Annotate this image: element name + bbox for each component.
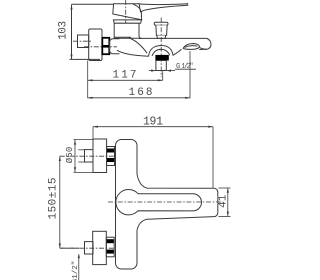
body bottom right of tongue bbox=[200, 48, 207, 50]
stub center line bbox=[73, 40, 91, 42]
bottom supply center line bbox=[60, 247, 118, 249]
body bottom between bell and tongue bbox=[173, 49, 182, 55]
body neck inner curve bbox=[128, 37, 147, 53]
spout bell outer bbox=[149, 45, 173, 56]
handle base inner curve bbox=[133, 4, 140, 9]
body connector bbox=[110, 39, 120, 54]
bottom supply stub bbox=[85, 242, 94, 254]
svg-text:168: 168 bbox=[129, 87, 153, 99]
svg-text:150±15: 150±15 bbox=[47, 178, 59, 220]
wall flange bbox=[89, 29, 102, 61]
body underside curve bbox=[117, 50, 149, 56]
handle lever bbox=[139, 4, 187, 13]
handle pivot center line bbox=[125, 0, 127, 25]
dimension 103 vertical bbox=[70, 4, 114, 59]
top supply stub bbox=[85, 150, 94, 162]
lever underside shadow bbox=[140, 9, 141, 12]
diverter cup bbox=[156, 25, 167, 35]
svg-text:41: 41 bbox=[218, 194, 230, 208]
top supply flange bbox=[93, 139, 107, 173]
cartridge collar bbox=[113, 20, 141, 23]
shower hose connector bbox=[156, 61, 166, 71]
svg-text:103: 103 bbox=[58, 21, 70, 40]
hex nut bbox=[102, 38, 109, 54]
diverter knob flange bbox=[154, 22, 168, 25]
spout bell inner arc bbox=[152, 49, 170, 56]
dimension 168 bbox=[88, 51, 190, 99]
plan center line bbox=[108, 201, 224, 203]
valve body block bbox=[114, 23, 141, 38]
top supply center line bbox=[60, 155, 118, 157]
dimension 41 bbox=[219, 188, 231, 216]
handle base bbox=[113, 4, 142, 20]
valve block joint line bbox=[114, 36, 131, 38]
spout outer outline bbox=[137, 174, 218, 230]
diverter foot bbox=[157, 35, 166, 38]
body tube top and right end bbox=[139, 38, 211, 49]
dimension 150+-15 bbox=[59, 156, 79, 248]
svg-text:191: 191 bbox=[143, 116, 163, 129]
spout tongue (flip lip) bbox=[183, 44, 199, 50]
faucet body bar bbox=[116, 140, 138, 270]
bottom supply flange bbox=[93, 231, 107, 264]
aerator black band bbox=[155, 55, 168, 61]
supply stub (eccentric union) bbox=[78, 35, 89, 48]
dimension 191 bbox=[93, 126, 213, 188]
tongue fold line bbox=[185, 46, 198, 48]
bottom supply nut bbox=[106, 237, 114, 257]
keyhole dome circle and ridge bbox=[116, 190, 202, 215]
G1/2 leader bottom view bbox=[78, 254, 80, 280]
G1/2 leader arrows bbox=[149, 69, 196, 72]
diverter center line bbox=[160, 18, 162, 78]
svg-text:117: 117 bbox=[113, 70, 137, 82]
svg-text:G 1/2": G 1/2" bbox=[176, 63, 194, 71]
dimension 117 bbox=[88, 71, 163, 81]
main axis center line bbox=[84, 46, 117, 48]
dimension d50 bbox=[74, 139, 94, 172]
svg-text:Ø50: Ø50 bbox=[65, 147, 75, 164]
svg-text:G1/2": G1/2" bbox=[72, 261, 80, 280]
top supply nut bbox=[107, 147, 115, 166]
